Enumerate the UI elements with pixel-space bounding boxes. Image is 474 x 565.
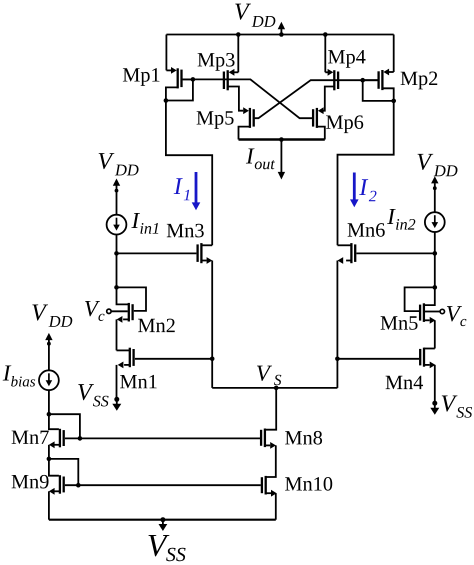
wire: Mn2 source to Mn1 drain	[116, 319, 118, 350]
I_in2 label	[387, 209, 415, 230]
transistor Mn6	[351, 243, 355, 263]
transistor Mn1	[130, 348, 134, 368]
Mn2 source lead with arrow	[117, 316, 129, 323]
power V_DD terminal arrow (bias)	[45, 333, 52, 346]
wire: V_DD rail to Mp1 source	[165, 35, 167, 71]
V_SS label (bottom)	[148, 535, 185, 561]
Mn6 gate lead	[356, 252, 434, 254]
wire: I_bias to Mn7 node	[48, 390, 50, 414]
Mp1 gate lead	[183, 78, 193, 80]
Mn7 source lead with arrow	[49, 441, 60, 448]
transistor Mn8 label	[285, 431, 322, 445]
Mn4 drain lead	[424, 348, 435, 350]
transistor Mp1	[178, 68, 182, 88]
wire: Mp2 drain down to Mn6 drain	[338, 101, 394, 245]
node: rail-Mp3 junction	[236, 32, 241, 37]
transistor Mn2	[129, 303, 133, 322]
node: I_bias/Mn7 junction	[47, 412, 52, 417]
V_SS terminal arrow (right)	[430, 403, 439, 415]
wire: V_DD rail to Mp4 source	[324, 35, 326, 73]
Mn3 gate lead	[117, 252, 197, 254]
wire: Mn9 gate bracket	[49, 459, 78, 485]
wire: Mn8 source to Mn10 drain	[266, 445, 276, 477]
Mp3 drain lead to Mp5 source	[228, 87, 244, 111]
wire: Mp1 drain down to Mn3 drain	[166, 101, 212, 246]
transistor Mn10 label	[285, 477, 332, 491]
current source I_in1	[107, 215, 127, 235]
V_c input terminal (right)	[425, 309, 444, 313]
wire: V_S to Mn8 drain	[265, 388, 276, 430]
node: Mn2 drain junction	[114, 285, 119, 290]
gate line Mn9-Mn10	[65, 484, 261, 486]
transistor Mn9 label	[12, 475, 49, 489]
transistor Mn1 label	[120, 375, 157, 388]
transistor Mp5	[250, 108, 254, 128]
Mp5 source arrow	[243, 107, 249, 114]
wire: V_SS bottom rail	[49, 519, 276, 521]
wire: junction down to Mn5 drain node	[434, 253, 436, 287]
transistor Mn9	[60, 475, 64, 494]
wire: Mn7 gate bracket	[49, 414, 80, 438]
wire: I_in2 to Mn6 gate node	[434, 232, 436, 253]
wire: output rail (Mp5/Mp6 drains)	[239, 138, 325, 140]
I_out output arrow	[278, 140, 285, 180]
transistor Mn5	[420, 303, 424, 322]
current source I_in2	[425, 212, 445, 232]
node: Mp1 drain junction	[164, 98, 169, 103]
I_out label	[246, 148, 275, 169]
Mp4 source lead with arrow	[325, 69, 333, 76]
Mn6 drain lead	[338, 244, 352, 246]
wire: Mn7 source to Mn9 drain	[48, 445, 50, 459]
current direction arrow I_2 (blue)	[350, 173, 359, 208]
Mn3 source lead with arrow	[201, 257, 212, 264]
transistor Mn5 label	[381, 316, 418, 329]
wire: Mn2 gate bracket	[117, 287, 147, 311]
wire: V_DD to I_in1 source	[116, 191, 118, 215]
node: Mn5 drain junction	[433, 285, 438, 290]
transistor Mp3	[224, 70, 228, 90]
transistor Mn7 label	[12, 431, 49, 444]
node: I_in1/Mn3 gate junction	[114, 251, 119, 256]
current direction I_2 label	[359, 179, 376, 201]
current direction arrow I_1 (blue)	[192, 172, 201, 210]
V_c input terminal (left)	[107, 309, 128, 313]
node: Mp1 gate junction	[191, 77, 196, 82]
wire: Mp2 diode connection	[363, 80, 394, 101]
transistor Mp6 label	[326, 115, 363, 133]
wire: Mn2 drain connection	[117, 287, 129, 304]
wire: Mn3 source down to V_S rail	[211, 261, 213, 388]
wire: Mn5 gate bracket	[405, 287, 435, 311]
wire: V_DD to I_bias source	[48, 344, 50, 371]
wire: V_DD top rail	[166, 34, 393, 36]
V_S label	[257, 366, 281, 386]
Mp3 source lead with arrow	[229, 69, 239, 76]
transistor Mp5 label	[197, 111, 234, 129]
transistor Mp6	[313, 108, 317, 128]
Mp2 source lead with arrow	[383, 69, 393, 76]
node: V_SS terminal junction (right)	[432, 401, 437, 406]
V_DD label (right mid)	[418, 154, 458, 176]
node V_S junction	[274, 386, 279, 391]
node: Mp2 drain junction	[391, 99, 396, 104]
transistor Mn6 label	[348, 223, 385, 237]
wire: gate line Mp1/Mp3 to Mp6 (cross-couple)	[183, 79, 313, 118]
V_SS label (right)	[442, 395, 472, 417]
transistor Mp2	[379, 70, 383, 90]
wire: Mn1 source to V_SS	[116, 365, 118, 399]
node: Mn9 gate junction	[76, 483, 81, 488]
wire: Mn6 source down to V_S rail	[336, 261, 338, 388]
node: Mn7 gate junction	[78, 436, 83, 441]
Mp1 drain lead	[166, 87, 178, 100]
node: V_SS terminal junction (bottom)	[160, 517, 165, 522]
wire: V_DD rail to Mp3 source	[237, 35, 239, 73]
node: I_in2/Mn6 gate junction	[433, 251, 438, 256]
current source I_bias	[39, 370, 59, 390]
transistor Mp1 label	[123, 68, 160, 86]
current direction I_1 label	[174, 178, 190, 200]
transistor Mn10	[262, 476, 266, 495]
node: Mn7 source/Mn9 junction	[47, 457, 52, 462]
gate line Mn7-Mn8	[65, 437, 260, 439]
node: Mp2 gate junction	[360, 78, 365, 83]
transistor Mp2 label	[401, 72, 438, 90]
wire: V_S rail	[212, 387, 337, 389]
V_SS label (left)	[78, 384, 108, 406]
transistor Mp4	[334, 70, 338, 90]
transistor Mp3 label	[198, 53, 235, 71]
Mp1 source lead with arrow	[166, 67, 176, 74]
node: I_out junction	[279, 137, 284, 142]
power V_DD terminal arrow (left mid)	[113, 179, 120, 193]
power V_DD terminal arrow (right mid)	[431, 176, 438, 190]
wire: V_DD rail to Mp2 source	[393, 35, 395, 73]
Mp5 drain lead	[239, 127, 250, 140]
Mn1 drain lead	[117, 349, 130, 351]
V_c label (left)	[85, 301, 104, 321]
wire: Mn5 drain connection	[424, 287, 435, 305]
wire: Mn10 source to V_SS rail	[275, 493, 277, 520]
V_DD label (top)	[235, 4, 275, 27]
Mp4 drain lead to Mp6 source	[322, 87, 335, 111]
wire: Mn9 drain connection	[49, 459, 59, 476]
transistor Mn4	[420, 348, 424, 367]
Mn8 source lead with arrow	[265, 442, 276, 449]
Mn4 source lead with arrow	[424, 362, 435, 369]
Mn4 gate lead to V_S column	[337, 358, 419, 360]
transistor Mn2 label	[138, 319, 175, 332]
Mn1 gate lead to V_S column	[135, 358, 212, 360]
Mp6 source arrow	[318, 107, 324, 114]
wire: I_bias node to Mn7 drain	[49, 414, 59, 429]
transistor Mn4 label	[386, 376, 423, 389]
wire: junction down to Mn2 drain node	[116, 253, 118, 287]
Mn5 source lead with arrow	[424, 317, 436, 324]
Mn1 source lead with arrow	[118, 362, 130, 369]
transistor Mn8	[261, 429, 265, 448]
Mp2 gate lead	[363, 79, 378, 81]
power V_DD terminal arrow (top)	[278, 22, 285, 37]
transistor Mn3 label	[167, 224, 204, 238]
wire: Mn5 source to Mn4 drain	[434, 320, 436, 348]
I_in1 label	[131, 213, 158, 234]
Mn9 source lead with arrow	[49, 488, 60, 495]
wire: Mn9 source to V_SS rail	[48, 491, 50, 519]
node: rail-Mp4 junction	[323, 32, 328, 37]
V_DD label (bias)	[32, 304, 72, 326]
Mn10 source lead with arrow	[266, 490, 277, 497]
node: Mn1 gate/Mn3 source junction	[210, 357, 215, 362]
wire: I_in1 to Mn3 gate node	[116, 235, 118, 254]
wire: gate line Mp2/Mp4 to Mp5 (cross-couple)	[255, 80, 378, 118]
I_bias label	[3, 365, 35, 386]
wire: Mp1 diode connection	[166, 79, 193, 100]
Mp6 drain lead	[317, 127, 325, 140]
Mp2 drain lead	[382, 88, 393, 101]
node: Mn4 gate/Mn6 source junction	[335, 357, 340, 362]
transistor Mn7	[60, 429, 64, 448]
V_DD label (left mid)	[99, 153, 139, 175]
wire: Mn4 source to V_SS	[434, 365, 436, 403]
transistor Mn3	[198, 243, 202, 263]
node: V_SS terminal junction (left)	[114, 397, 119, 402]
transistor Mp4 label	[328, 50, 365, 68]
Mn3 drain lead	[201, 244, 212, 246]
V_c label (right)	[447, 306, 466, 326]
wire: V_DD to I_in2 source	[434, 188, 436, 212]
V_SS terminal arrow (bottom)	[159, 520, 168, 531]
V_SS terminal arrow (left)	[112, 399, 121, 411]
Mn6 source lead with arrow	[338, 257, 352, 264]
